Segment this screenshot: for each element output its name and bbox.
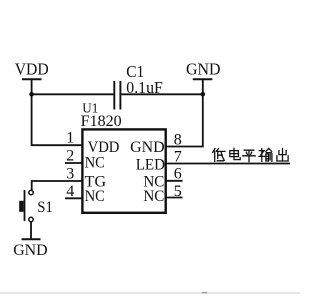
ground (bottom) bbox=[13, 239, 48, 259]
pin number 8 bbox=[174, 132, 182, 149]
glyph 平 bbox=[243, 150, 255, 161]
pin label TG bbox=[85, 173, 107, 190]
pin label NC (pin 5) bbox=[143, 188, 164, 205]
svg-text:GND: GND bbox=[186, 60, 221, 79]
svg-text:3: 3 bbox=[66, 165, 74, 182]
stub pin 4 (NC) bbox=[65, 197, 83, 199]
pin number 7 bbox=[174, 148, 182, 165]
svg-text:S1: S1 bbox=[37, 199, 53, 216]
pin label GND bbox=[130, 139, 165, 156]
wire pin 7 output bbox=[166, 163, 291, 165]
label C1 bbox=[126, 62, 144, 81]
pin number 3 bbox=[66, 165, 74, 182]
wire pin 1 (VDD) bbox=[32, 94, 83, 145]
pin number 4 bbox=[66, 183, 74, 200]
svg-text:VDD: VDD bbox=[15, 60, 49, 79]
svg-text:1: 1 bbox=[66, 130, 74, 147]
label U1 bbox=[82, 101, 98, 116]
value 0.1uF bbox=[126, 78, 163, 97]
label F1820 bbox=[81, 113, 122, 130]
glyph 低 bbox=[213, 149, 225, 162]
faint scan line (decorative) bbox=[0, 292, 300, 294]
stub pin 6 (NC) bbox=[166, 180, 183, 182]
svg-text:NC: NC bbox=[85, 155, 105, 172]
switch S1 bbox=[19, 190, 33, 222]
svg-text:GND: GND bbox=[130, 139, 165, 156]
glyph 输 bbox=[259, 148, 272, 161]
glyph 出 bbox=[277, 148, 288, 161]
label S1 bbox=[37, 199, 53, 216]
pin label NC (pin 4) bbox=[85, 188, 105, 205]
glyph 电 bbox=[230, 148, 240, 159]
pin label VDD bbox=[88, 139, 120, 156]
svg-text:F1820: F1820 bbox=[81, 113, 122, 130]
junction node GND bbox=[201, 92, 206, 97]
wire pin 3 (TG) to switch bbox=[32, 181, 83, 190]
pin number 1 bbox=[66, 130, 74, 147]
pin number 2 bbox=[66, 147, 74, 164]
svg-text:8: 8 bbox=[174, 132, 182, 149]
power symbol VDD bbox=[15, 60, 49, 95]
output net label 低电平输出 bbox=[213, 149, 225, 162]
wire GND node to pin 8 bbox=[166, 94, 203, 146]
power symbol GND (top) bbox=[186, 60, 221, 95]
pin number 6 bbox=[174, 166, 182, 183]
junction node VDD bbox=[29, 92, 34, 97]
wire switch to ground bbox=[30, 222, 32, 240]
pin label NC (pin 6) bbox=[143, 173, 164, 190]
wire C1 to GND node bbox=[121, 93, 203, 95]
wire VDD node to C1 bbox=[32, 93, 114, 95]
stub pin 2 (NC) bbox=[65, 162, 83, 164]
pin label LED bbox=[136, 156, 165, 173]
IC U1 body bbox=[82, 129, 165, 212]
svg-text:4: 4 bbox=[66, 183, 74, 200]
capacitor C1 bbox=[114, 81, 120, 110]
svg-text:2: 2 bbox=[66, 147, 74, 164]
pin label NC (pin 2) bbox=[85, 155, 105, 172]
pin number 5 bbox=[174, 183, 182, 200]
svg-text:GND: GND bbox=[13, 242, 48, 259]
svg-text:LED: LED bbox=[136, 156, 165, 173]
stub pin 5 (NC) bbox=[166, 197, 183, 199]
svg-text:NC: NC bbox=[85, 188, 105, 205]
svg-text:NC: NC bbox=[143, 188, 164, 205]
